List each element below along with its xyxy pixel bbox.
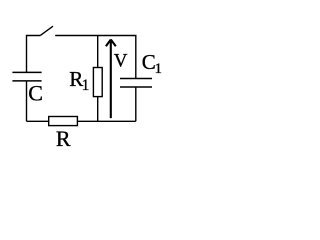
svg-text:R: R xyxy=(56,126,71,151)
svg-text:C: C xyxy=(28,81,43,106)
svg-text:1: 1 xyxy=(82,77,90,94)
svg-text:V: V xyxy=(114,51,128,72)
svg-text:1: 1 xyxy=(155,61,163,77)
